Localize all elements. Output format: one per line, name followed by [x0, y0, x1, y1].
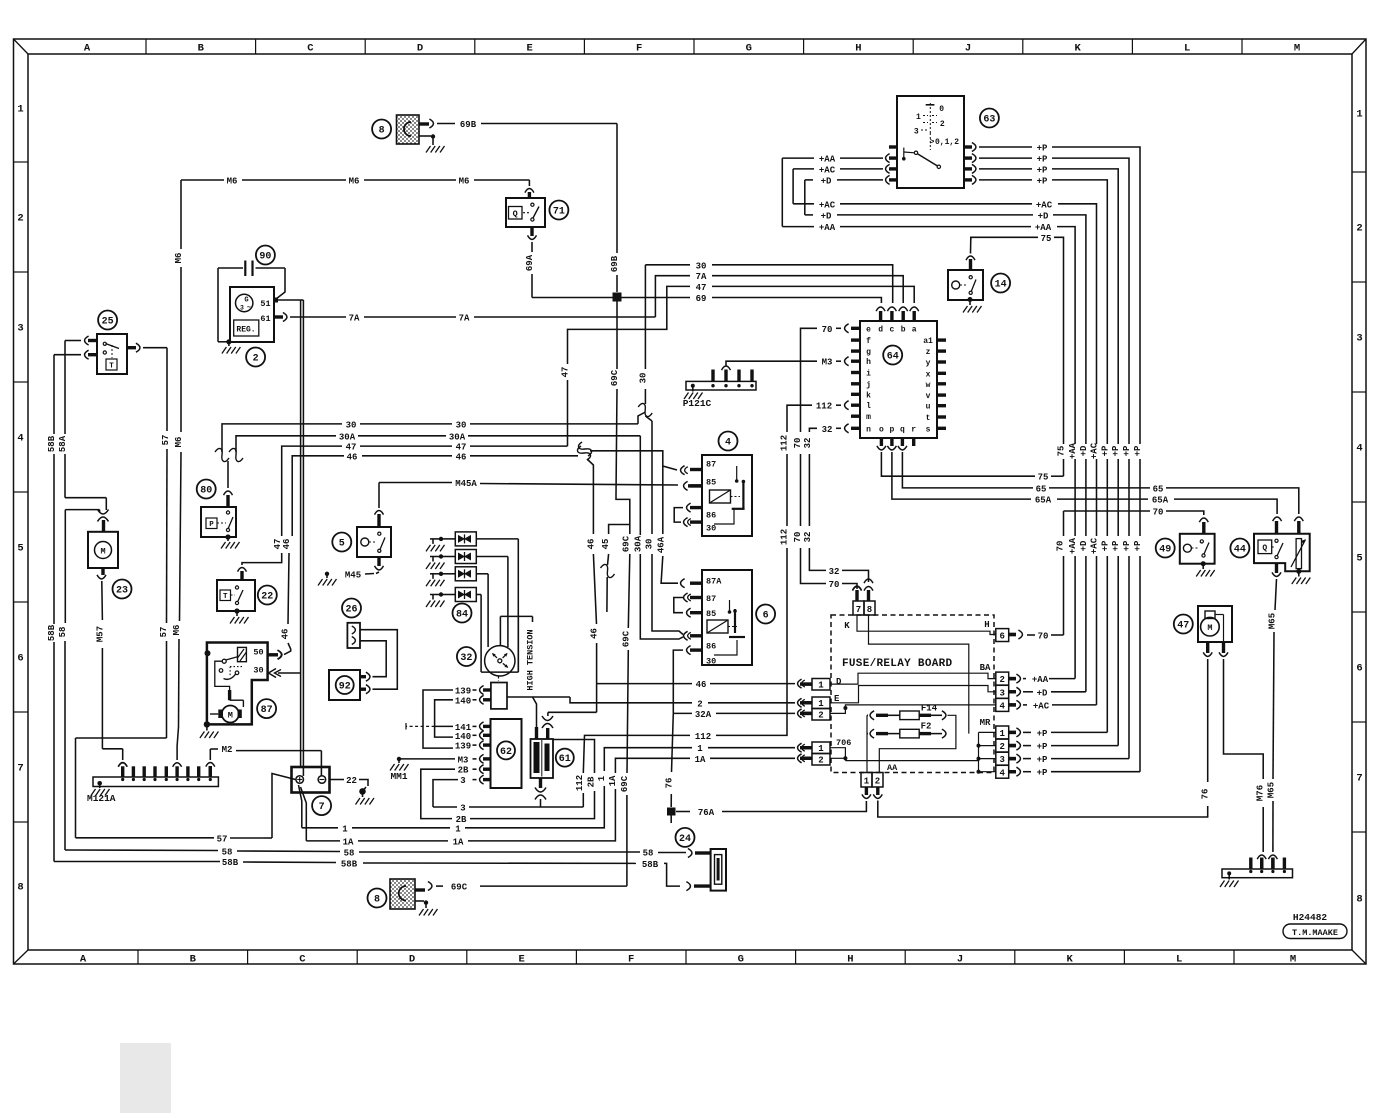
svg-text:T: T	[223, 593, 228, 601]
svg-text:1A: 1A	[343, 837, 354, 847]
svg-text:1: 1	[1356, 109, 1362, 121]
svg-text:6: 6	[763, 610, 769, 621]
svg-text:1: 1	[17, 104, 23, 116]
svg-text:C: C	[299, 954, 306, 966]
svg-text:61: 61	[260, 314, 270, 324]
svg-text:u: u	[926, 403, 931, 412]
svg-text:57: 57	[217, 834, 228, 844]
svg-text:f: f	[866, 337, 871, 346]
svg-text:+P: +P	[1122, 445, 1132, 456]
svg-text:D: D	[409, 954, 415, 966]
svg-text:+AA: +AA	[1035, 223, 1052, 233]
svg-text:1: 1	[342, 824, 348, 834]
svg-text:2: 2	[875, 777, 880, 787]
svg-text:69C: 69C	[622, 535, 632, 552]
svg-text:H: H	[984, 620, 989, 630]
svg-text:L: L	[1184, 43, 1190, 55]
svg-text:32: 32	[803, 532, 813, 543]
svg-text:2: 2	[940, 120, 945, 129]
svg-text:0,1,2: 0,1,2	[935, 138, 959, 147]
svg-text:5: 5	[1356, 553, 1362, 565]
svg-text:7A: 7A	[349, 314, 360, 324]
svg-text:30: 30	[456, 420, 467, 430]
svg-text:2B: 2B	[587, 776, 597, 787]
svg-text:4: 4	[999, 768, 1005, 778]
svg-text:+AC: +AC	[1036, 200, 1053, 210]
svg-text:n: n	[866, 425, 871, 434]
svg-text:+AC: +AC	[1090, 442, 1100, 459]
svg-text:112: 112	[816, 402, 832, 412]
svg-text:90: 90	[259, 251, 271, 262]
svg-text:BA: BA	[980, 663, 991, 673]
svg-text:m: m	[866, 413, 871, 422]
svg-text:47: 47	[1177, 620, 1189, 631]
svg-text:22: 22	[346, 776, 357, 786]
svg-text:87A: 87A	[706, 577, 722, 587]
svg-text:v: v	[926, 392, 931, 401]
svg-text:+P: +P	[1111, 445, 1121, 456]
svg-text:D: D	[836, 677, 842, 687]
svg-text:2: 2	[697, 699, 702, 709]
svg-text:1: 1	[818, 744, 824, 754]
svg-text:d: d	[878, 326, 883, 335]
svg-text:7: 7	[17, 763, 23, 775]
svg-text:B: B	[198, 43, 205, 55]
svg-text:+P: +P	[1133, 445, 1143, 456]
svg-text:F: F	[628, 954, 634, 966]
svg-text:i: i	[866, 370, 871, 379]
svg-text:25: 25	[102, 316, 114, 327]
svg-text:70: 70	[822, 325, 833, 335]
svg-text:3: 3	[999, 755, 1004, 765]
svg-text:+D: +D	[1038, 211, 1049, 221]
svg-text:70: 70	[793, 438, 803, 449]
svg-text:112: 112	[575, 775, 585, 791]
svg-text:a1: a1	[923, 337, 933, 346]
svg-text:+AC: +AC	[819, 200, 836, 210]
svg-text:5: 5	[17, 543, 23, 555]
svg-text:1: 1	[597, 775, 607, 781]
svg-text:1A: 1A	[695, 755, 706, 765]
svg-text:~: ~	[247, 305, 251, 313]
svg-text:30: 30	[645, 539, 655, 550]
svg-text:+P: +P	[1133, 540, 1143, 551]
svg-text:46: 46	[282, 539, 292, 550]
svg-text:58: 58	[58, 627, 68, 638]
svg-text:24: 24	[679, 834, 691, 845]
svg-text:MM1: MM1	[390, 771, 407, 782]
svg-text:1: 1	[864, 777, 870, 787]
svg-text:t: t	[926, 414, 931, 423]
svg-text:58: 58	[643, 849, 654, 859]
svg-text:140: 140	[455, 732, 471, 742]
svg-text:1: 1	[455, 824, 461, 834]
svg-text:M: M	[1207, 623, 1212, 633]
svg-text:76A: 76A	[698, 808, 715, 818]
svg-text:G: G	[244, 297, 248, 305]
svg-text:2: 2	[818, 711, 823, 721]
svg-text:58B: 58B	[222, 858, 239, 868]
svg-text:J: J	[965, 43, 971, 55]
svg-text:85: 85	[706, 478, 716, 488]
svg-text:3: 3	[460, 776, 465, 786]
svg-text:F2: F2	[921, 722, 932, 732]
svg-text:H24482: H24482	[1293, 912, 1328, 923]
svg-text:58B: 58B	[642, 860, 659, 870]
svg-text:50: 50	[253, 648, 263, 658]
svg-text:30A: 30A	[634, 535, 644, 552]
svg-text:M3: M3	[458, 755, 469, 765]
svg-text:2: 2	[818, 756, 823, 766]
svg-text:46: 46	[590, 628, 600, 639]
svg-text:+P: +P	[1037, 155, 1048, 165]
svg-text:30: 30	[638, 373, 648, 384]
svg-text:H: H	[847, 954, 853, 966]
svg-text:8: 8	[379, 125, 385, 136]
svg-text:706: 706	[836, 738, 851, 748]
svg-text:69B: 69B	[610, 255, 620, 272]
svg-text:g: g	[866, 348, 871, 357]
svg-text:58A: 58A	[58, 435, 68, 452]
svg-text:46: 46	[587, 539, 597, 550]
svg-text:65: 65	[1036, 484, 1047, 494]
svg-text:61: 61	[559, 754, 571, 765]
svg-text:80: 80	[200, 485, 212, 496]
svg-text:+AC: +AC	[819, 165, 836, 175]
svg-text:69: 69	[696, 294, 707, 304]
svg-text:32: 32	[803, 438, 813, 449]
svg-text:y: y	[926, 359, 931, 368]
svg-text:69C: 69C	[621, 630, 631, 647]
svg-text:b: b	[901, 326, 906, 335]
svg-text:2: 2	[999, 742, 1004, 752]
svg-text:85: 85	[706, 609, 716, 619]
svg-text:30A: 30A	[449, 432, 466, 442]
svg-text:69C: 69C	[451, 883, 468, 893]
svg-text:J: J	[957, 954, 963, 966]
svg-text:47: 47	[346, 443, 357, 453]
svg-text:30: 30	[706, 657, 716, 667]
svg-text:58: 58	[222, 848, 233, 858]
svg-text:M: M	[1294, 43, 1300, 55]
svg-text:86: 86	[706, 642, 716, 652]
svg-text:M45: M45	[345, 571, 361, 581]
svg-text:M6: M6	[459, 177, 470, 187]
svg-text:+P: +P	[1037, 144, 1048, 154]
svg-text:T: T	[109, 363, 114, 371]
svg-text:75: 75	[1041, 234, 1052, 244]
svg-text:4: 4	[999, 701, 1005, 711]
svg-text:w: w	[926, 381, 931, 390]
svg-text:57: 57	[161, 435, 171, 446]
svg-text:47: 47	[456, 443, 467, 453]
svg-text:69C: 69C	[620, 775, 630, 792]
svg-text:M65: M65	[1268, 613, 1278, 629]
svg-text:p: p	[889, 426, 894, 435]
svg-text:87: 87	[706, 460, 716, 470]
svg-text:8: 8	[1356, 894, 1362, 906]
svg-text:M6: M6	[227, 177, 238, 187]
svg-text:B: B	[190, 954, 197, 966]
svg-text:+AA: +AA	[1068, 442, 1078, 459]
svg-text:1: 1	[818, 699, 824, 709]
svg-text:2: 2	[17, 213, 23, 225]
svg-text:86: 86	[706, 511, 716, 521]
svg-text:M57: M57	[95, 626, 105, 642]
svg-text:+AC: +AC	[1033, 701, 1050, 711]
svg-text:G: G	[738, 954, 744, 966]
svg-text:4: 4	[725, 437, 731, 448]
svg-text:7: 7	[1356, 773, 1362, 785]
svg-text:70: 70	[1056, 541, 1066, 552]
svg-text:87: 87	[706, 594, 716, 604]
svg-text:4: 4	[17, 433, 23, 445]
svg-text:1A: 1A	[608, 775, 618, 786]
svg-text:A: A	[80, 954, 87, 966]
svg-text:139: 139	[455, 687, 471, 697]
svg-text:58B: 58B	[47, 624, 57, 641]
svg-text:j: j	[866, 381, 871, 390]
svg-text:l: l	[866, 402, 871, 411]
svg-text:139: 139	[455, 742, 471, 752]
svg-text:22: 22	[261, 591, 273, 602]
svg-text:2: 2	[1356, 223, 1362, 235]
svg-text:Q: Q	[513, 209, 518, 219]
svg-text:70: 70	[793, 532, 803, 543]
svg-text:49: 49	[1159, 544, 1171, 555]
svg-text:3: 3	[1356, 333, 1362, 345]
svg-text:+D: +D	[1079, 445, 1089, 456]
svg-text:E: E	[526, 43, 532, 55]
svg-text:M6: M6	[174, 253, 184, 264]
svg-text:1: 1	[999, 729, 1005, 739]
svg-text:1: 1	[916, 113, 921, 122]
svg-text:70: 70	[829, 580, 840, 590]
svg-text:M6: M6	[349, 177, 360, 187]
svg-text:46: 46	[456, 452, 467, 462]
svg-text:1: 1	[697, 744, 703, 754]
svg-text:3: 3	[17, 323, 23, 335]
svg-text:P: P	[209, 521, 214, 529]
svg-text:k: k	[866, 391, 871, 400]
svg-text:65A: 65A	[1035, 496, 1052, 506]
svg-text:58B: 58B	[47, 435, 57, 452]
svg-text:M2: M2	[222, 745, 233, 755]
svg-text:32: 32	[829, 567, 840, 577]
svg-text:+D: +D	[1079, 540, 1089, 551]
svg-text:3: 3	[460, 804, 465, 814]
svg-text:+AA: +AA	[819, 155, 836, 165]
svg-text:7: 7	[856, 605, 861, 615]
svg-text:112: 112	[780, 435, 790, 451]
svg-text:A: A	[84, 43, 91, 55]
svg-text:+AA: +AA	[1068, 537, 1078, 554]
svg-text:M3: M3	[822, 358, 833, 368]
svg-text:+D: +D	[821, 176, 832, 186]
svg-text:1: 1	[818, 681, 824, 691]
svg-text:F: F	[636, 43, 642, 55]
svg-text:23: 23	[116, 585, 128, 596]
svg-text:+P: +P	[1037, 165, 1048, 175]
svg-text:8: 8	[867, 605, 872, 615]
svg-text:30: 30	[706, 524, 716, 534]
svg-text:45: 45	[601, 539, 611, 550]
svg-text:69B: 69B	[460, 120, 477, 130]
svg-text:H: H	[855, 43, 861, 55]
svg-text:75: 75	[1038, 473, 1049, 483]
svg-text:+D: +D	[1037, 688, 1048, 698]
svg-text:K: K	[1066, 954, 1073, 966]
svg-text:87: 87	[261, 705, 273, 716]
svg-text:64: 64	[887, 351, 899, 362]
svg-text:e: e	[866, 325, 871, 334]
svg-text:112: 112	[780, 529, 790, 545]
svg-text:a: a	[912, 326, 917, 335]
svg-text:G: G	[746, 43, 752, 55]
svg-text:6: 6	[999, 632, 1004, 642]
svg-text:+D: +D	[821, 211, 832, 221]
svg-text:Q: Q	[1262, 544, 1267, 553]
svg-text:3: 3	[914, 128, 919, 137]
svg-text:7A: 7A	[696, 272, 707, 282]
svg-text:47: 47	[561, 367, 571, 378]
svg-text:K: K	[1074, 43, 1081, 55]
svg-text:3: 3	[999, 688, 1004, 698]
svg-text:32: 32	[460, 653, 472, 664]
svg-text:7A: 7A	[459, 314, 470, 324]
svg-text:5: 5	[339, 538, 345, 549]
svg-text:z: z	[926, 348, 931, 357]
svg-text:+P: +P	[1111, 540, 1121, 551]
svg-text:63: 63	[983, 114, 995, 125]
svg-text:3: 3	[240, 305, 244, 312]
svg-text:AA: AA	[887, 763, 898, 773]
svg-text:26: 26	[345, 604, 357, 615]
svg-text:75: 75	[1057, 446, 1067, 457]
svg-text:70: 70	[1038, 632, 1049, 642]
svg-text:c: c	[889, 326, 894, 335]
svg-text:h: h	[866, 358, 871, 367]
svg-text:MR: MR	[980, 718, 991, 728]
svg-text:M6: M6	[174, 437, 184, 448]
svg-text:+AA: +AA	[1032, 675, 1049, 685]
svg-text:76: 76	[665, 778, 675, 789]
svg-text:4: 4	[1356, 443, 1362, 455]
svg-text:D: D	[417, 43, 423, 55]
svg-text:E: E	[518, 954, 524, 966]
svg-text:L: L	[1176, 954, 1182, 966]
svg-text:s: s	[926, 425, 931, 434]
svg-text:62: 62	[500, 747, 512, 758]
svg-text:44: 44	[1234, 544, 1246, 555]
svg-text:+P: +P	[1037, 742, 1048, 752]
svg-text:46: 46	[696, 680, 707, 690]
svg-text:14: 14	[995, 279, 1007, 290]
svg-text:K: K	[844, 621, 850, 631]
svg-text:x: x	[926, 370, 931, 379]
svg-text:47: 47	[696, 283, 707, 293]
svg-text:F14: F14	[921, 703, 938, 713]
svg-text:32A: 32A	[695, 710, 712, 720]
svg-text:M65: M65	[1267, 782, 1277, 798]
svg-text:76: 76	[1201, 789, 1211, 800]
svg-text:46A: 46A	[657, 536, 667, 553]
svg-text:46: 46	[281, 629, 291, 640]
svg-text:65A: 65A	[1152, 496, 1169, 506]
svg-text:+P: +P	[1037, 768, 1048, 778]
svg-text:q: q	[900, 426, 905, 435]
svg-text:70: 70	[1153, 508, 1164, 518]
svg-text:58: 58	[344, 849, 355, 859]
svg-text:+AA: +AA	[819, 223, 836, 233]
svg-text:M121A: M121A	[87, 793, 116, 804]
svg-text:1A: 1A	[453, 837, 464, 847]
svg-text:69C: 69C	[610, 369, 620, 386]
svg-text:69A: 69A	[525, 254, 535, 271]
svg-text:+P: +P	[1037, 729, 1048, 739]
svg-text:+P: +P	[1037, 755, 1048, 765]
svg-text:0: 0	[939, 105, 944, 114]
svg-text:8: 8	[374, 894, 380, 905]
svg-text:+P: +P	[1122, 540, 1132, 551]
svg-text:M76: M76	[1256, 785, 1266, 801]
svg-text:30: 30	[253, 666, 263, 676]
svg-text:58B: 58B	[341, 859, 358, 869]
svg-text:65: 65	[1153, 484, 1164, 494]
svg-text:46: 46	[347, 452, 358, 462]
svg-text:FUSE/RELAY BOARD: FUSE/RELAY BOARD	[842, 658, 953, 670]
svg-text:+AC: +AC	[1090, 537, 1100, 554]
svg-text:51: 51	[260, 299, 270, 309]
svg-text:T.M.MAAKE: T.M.MAAKE	[1292, 928, 1338, 938]
svg-text:+P: +P	[1037, 176, 1048, 186]
svg-text:140: 140	[455, 696, 471, 706]
svg-text:30: 30	[346, 420, 357, 430]
svg-text:o: o	[879, 426, 884, 435]
svg-text:6: 6	[1356, 663, 1362, 675]
svg-text:>: >	[930, 138, 935, 147]
svg-text:8: 8	[17, 882, 23, 894]
svg-text:2: 2	[999, 675, 1004, 685]
svg-text:C: C	[307, 43, 314, 55]
svg-text:HIGH TENSION: HIGH TENSION	[526, 629, 536, 690]
svg-text:92: 92	[339, 681, 351, 692]
svg-text:32: 32	[822, 425, 833, 435]
svg-text:+P: +P	[1100, 540, 1110, 551]
svg-text:M45A: M45A	[455, 479, 477, 489]
svg-text:M6: M6	[172, 625, 182, 636]
svg-text:r: r	[911, 426, 916, 435]
svg-text:6: 6	[17, 653, 23, 665]
svg-text:P121C: P121C	[683, 398, 712, 409]
svg-text:M: M	[228, 711, 233, 721]
svg-text:+P: +P	[1100, 445, 1110, 456]
svg-text:M: M	[1290, 954, 1296, 966]
svg-text:2B: 2B	[458, 766, 469, 776]
svg-text:84: 84	[456, 609, 468, 620]
svg-text:REG.: REG.	[236, 326, 255, 335]
svg-text:30: 30	[696, 261, 707, 271]
svg-text:112: 112	[695, 732, 711, 742]
svg-text:7: 7	[319, 802, 325, 813]
svg-text:30A: 30A	[339, 432, 356, 442]
svg-text:71: 71	[553, 206, 565, 217]
svg-text:2: 2	[253, 353, 259, 364]
svg-text:M: M	[100, 547, 105, 557]
svg-text:57: 57	[159, 627, 169, 638]
